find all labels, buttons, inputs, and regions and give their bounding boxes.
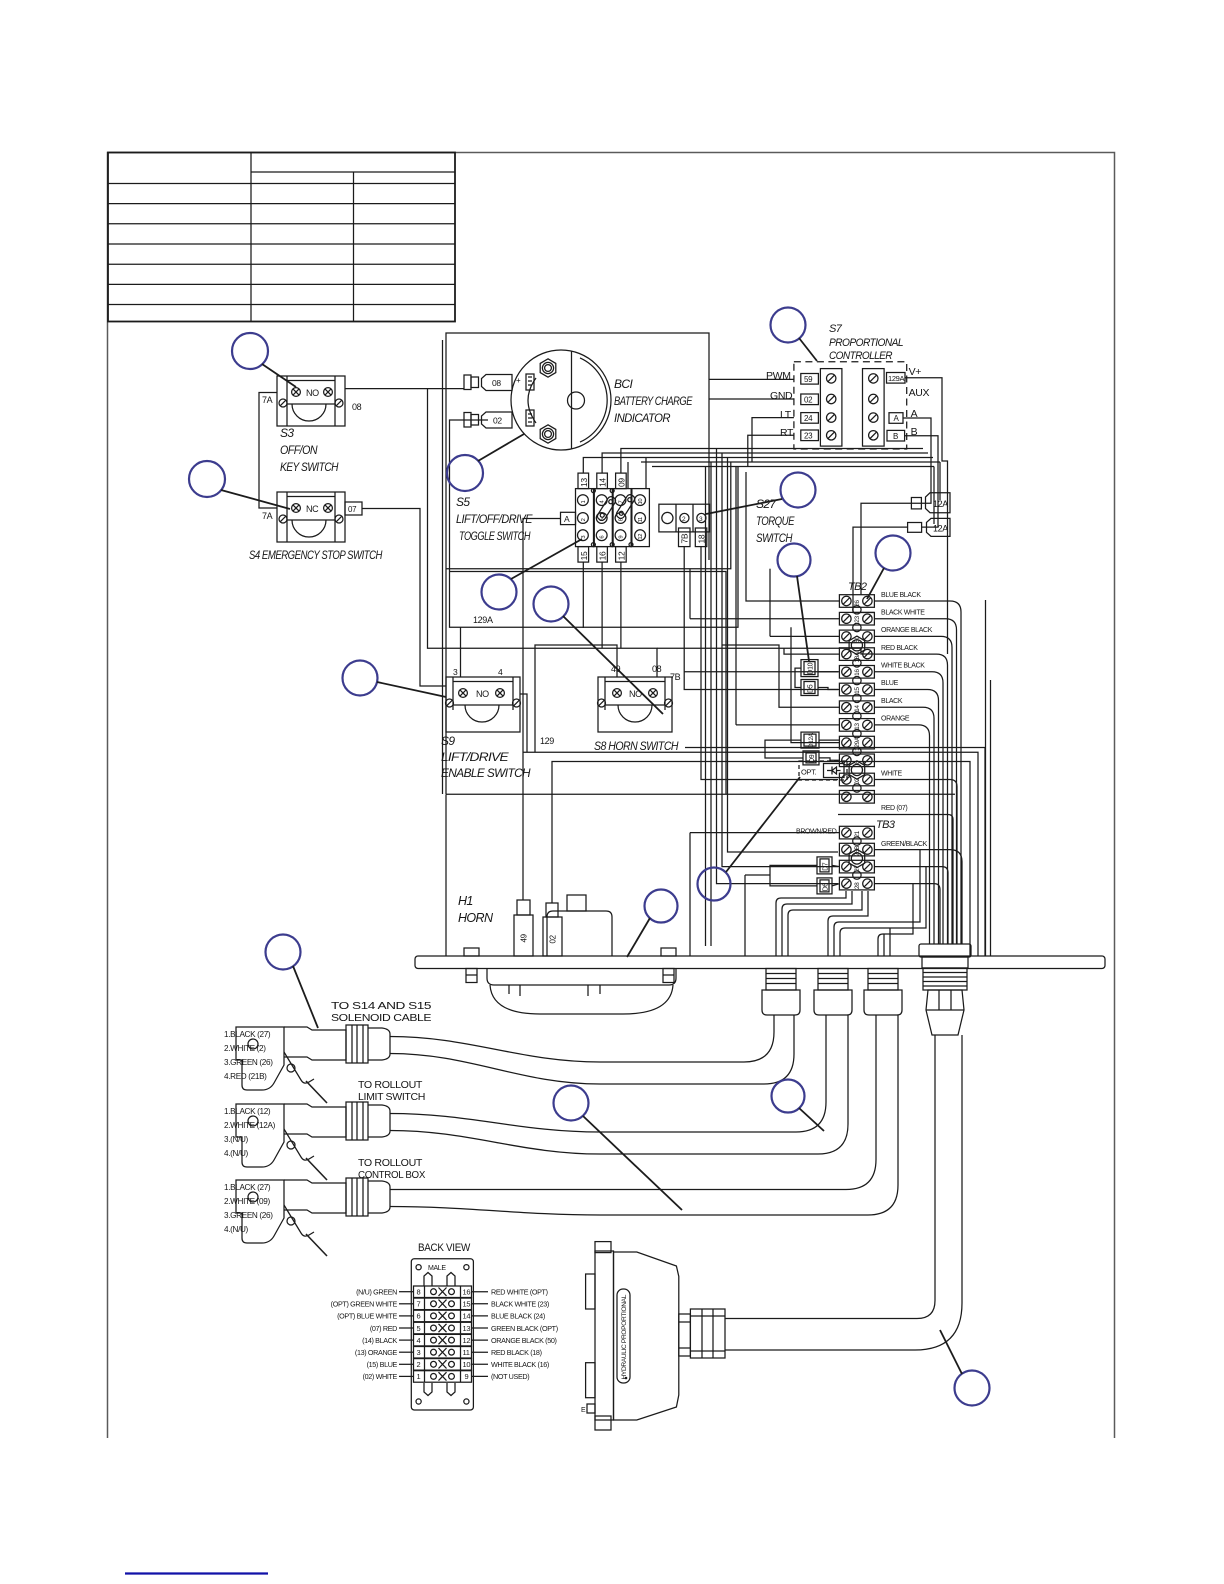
label 7A (S4) bbox=[262, 511, 273, 521]
left verticals to plate bbox=[446, 794, 745, 956]
svg-text:(07) RED: (07) RED bbox=[370, 1324, 397, 1333]
svg-text:BCI: BCI bbox=[614, 377, 633, 391]
TB2 hex nut upper bbox=[849, 636, 865, 654]
svg-text:15: 15 bbox=[854, 687, 861, 694]
svg-text:12: 12 bbox=[463, 1336, 471, 1345]
svg-text:4.(N/U): 4.(N/U) bbox=[224, 1225, 249, 1234]
svg-text:GREEN/BLACK: GREEN/BLACK bbox=[881, 841, 928, 848]
svg-text:TO ROLLOUT: TO ROLLOUT bbox=[358, 1158, 422, 1169]
svg-text:BACK VIEW: BACK VIEW bbox=[418, 1242, 471, 1254]
svg-text:AUX: AUX bbox=[909, 387, 930, 399]
wire D7 D6 links bbox=[745, 865, 839, 886]
svg-text:12: 12 bbox=[616, 551, 626, 560]
terminal strip TB2 bbox=[839, 595, 874, 803]
S5 tab 16 bbox=[597, 547, 608, 563]
svg-text:4: 4 bbox=[498, 667, 503, 677]
svg-text:4.(N/U): 4.(N/U) bbox=[224, 1149, 249, 1158]
svg-text:3.GREEN (26): 3.GREEN (26) bbox=[224, 1058, 273, 1067]
svg-text:(OPT) BLUE WHITE: (OPT) BLUE WHITE bbox=[337, 1312, 397, 1321]
svg-text:02: 02 bbox=[854, 777, 861, 784]
wire horn 02 bbox=[552, 762, 970, 904]
diode block D12A bbox=[801, 732, 819, 748]
svg-text:02: 02 bbox=[549, 934, 558, 943]
label BROWN/RED bbox=[796, 829, 837, 836]
TB3 row numbers bbox=[854, 830, 861, 889]
back view pin numbers right bbox=[463, 1288, 471, 1382]
wire S8 49 bbox=[535, 645, 617, 752]
toggle switch S5 grid bbox=[576, 489, 650, 547]
svg-text:LIMIT SWITCH: LIMIT SWITCH bbox=[358, 1092, 425, 1103]
switch S3 key switch bbox=[277, 376, 345, 426]
label S3 OFF/ON KEY SWITCH bbox=[280, 426, 339, 474]
svg-text:S3: S3 bbox=[280, 426, 294, 440]
svg-text:BLUE BLACK: BLUE BLACK bbox=[881, 592, 921, 599]
callout balloon gland1 bbox=[772, 1080, 825, 1132]
label 129 bbox=[540, 736, 554, 746]
wire lower box line 2 bbox=[450, 572, 727, 795]
diode block D10 bbox=[801, 660, 818, 677]
wire LT bbox=[752, 418, 794, 462]
callout balloon cable1 bbox=[266, 935, 319, 1029]
svg-text:15: 15 bbox=[579, 551, 589, 560]
cable gland 1 bbox=[762, 969, 800, 1016]
cable gland 3 bbox=[864, 969, 902, 1016]
wire A bbox=[903, 418, 931, 503]
label 7B bbox=[670, 672, 681, 682]
svg-text:12: 12 bbox=[638, 534, 644, 540]
wire 129 from S9 bbox=[520, 694, 985, 752]
svg-text:1.BLACK (27): 1.BLACK (27) bbox=[224, 1030, 271, 1039]
BCI battery charge indicator bbox=[511, 350, 611, 450]
svg-text:129A: 129A bbox=[888, 374, 904, 383]
svg-text:3.GREEN (26): 3.GREEN (26) bbox=[224, 1211, 273, 1220]
TB2 fan-out wires right bbox=[875, 601, 962, 944]
OPT diode assembly bbox=[799, 761, 847, 780]
torque switch S27 block bbox=[659, 504, 710, 532]
svg-text:11: 11 bbox=[463, 1348, 470, 1357]
cable gland big bbox=[919, 944, 971, 1035]
diode block D7 bbox=[817, 857, 832, 874]
svg-text:4.RED (21B): 4.RED (21B) bbox=[224, 1072, 267, 1081]
cable assembly 2 labels bbox=[224, 1107, 276, 1158]
svg-text:13: 13 bbox=[463, 1324, 471, 1333]
hydraulic cable bbox=[725, 1035, 962, 1350]
wire RT bbox=[748, 435, 794, 466]
svg-text:V+: V+ bbox=[909, 366, 922, 378]
svg-text:S4 EMERGENCY STOP SWITCH: S4 EMERGENCY STOP SWITCH bbox=[249, 548, 383, 562]
svg-text:D12A: D12A bbox=[808, 732, 815, 748]
svg-text:RED BLACK: RED BLACK bbox=[881, 645, 918, 652]
hydraulic gland bbox=[679, 1309, 725, 1358]
wire S5 tab15 down bbox=[582, 562, 584, 628]
svg-text:TO ROLLOUT: TO ROLLOUT bbox=[358, 1080, 422, 1091]
S7 right screws bbox=[869, 374, 878, 440]
svg-text:WHITE BLACK (16): WHITE BLACK (16) bbox=[491, 1360, 549, 1369]
svg-text:07: 07 bbox=[348, 505, 357, 514]
wire 129A stub to S9 bbox=[460, 627, 462, 677]
svg-text:50: 50 bbox=[854, 635, 861, 642]
S5 tab 14 bbox=[597, 473, 608, 489]
svg-text:BLUE: BLUE bbox=[881, 680, 899, 687]
svg-text:WHITE BLACK: WHITE BLACK bbox=[881, 663, 925, 670]
svg-text:D7: D7 bbox=[822, 862, 829, 871]
svg-text:08: 08 bbox=[352, 402, 362, 412]
wire net 08 branch down to S8 bbox=[428, 389, 658, 677]
fuse spade 12A no.1 bbox=[911, 493, 950, 513]
spade terminal 02 bbox=[464, 412, 512, 428]
svg-text:08: 08 bbox=[652, 664, 662, 674]
svg-text:KEY SWITCH: KEY SWITCH bbox=[280, 460, 339, 474]
callout balloon TB2 bbox=[867, 536, 911, 600]
label 08 bbox=[352, 402, 362, 412]
svg-text:2: 2 bbox=[581, 518, 587, 521]
horn H1 bbox=[487, 895, 676, 1014]
S7 pin 129A bbox=[887, 373, 906, 384]
svg-text:5: 5 bbox=[417, 1324, 421, 1333]
svg-text:7A: 7A bbox=[262, 511, 273, 521]
svg-text:02: 02 bbox=[804, 396, 813, 405]
svg-text:ENABLE SWITCH: ENABLE SWITCH bbox=[441, 766, 531, 780]
svg-text:PWM: PWM bbox=[766, 370, 791, 382]
cable 3 wires bbox=[390, 1015, 898, 1215]
svg-text:H1: H1 bbox=[458, 894, 473, 908]
label 7A (S3) bbox=[262, 395, 273, 405]
back view right labels bbox=[491, 1288, 558, 1382]
svg-text:NO: NO bbox=[476, 689, 489, 699]
wire S27 7B down bbox=[684, 547, 838, 690]
svg-text:ORANGE: ORANGE bbox=[881, 716, 910, 723]
svg-text:24: 24 bbox=[804, 414, 813, 423]
wire BROWN/RED bbox=[690, 832, 839, 834]
wire S5 A tab to horn bbox=[523, 519, 561, 901]
wire S5 tab12 down bbox=[620, 562, 622, 648]
callout balloon 1 (S3) bbox=[232, 333, 296, 387]
wire spade2 left bbox=[853, 527, 908, 612]
callout balloon S5 bbox=[482, 539, 583, 610]
svg-text:ORANGE BLACK (50): ORANGE BLACK (50) bbox=[491, 1336, 557, 1345]
svg-text:TO S14 AND S15: TO S14 AND S15 bbox=[331, 1001, 432, 1012]
callout balloon rollout bbox=[554, 1086, 683, 1211]
svg-text:OFF/ON: OFF/ON bbox=[280, 443, 318, 457]
svg-text:12A: 12A bbox=[933, 524, 948, 534]
svg-text:NO: NO bbox=[629, 689, 642, 699]
back view pin numbers left bbox=[417, 1288, 421, 1382]
TB2 wire color labels bbox=[881, 592, 933, 812]
wire 08 from S3 to spade bbox=[345, 388, 464, 390]
svg-text:ORANGE BLACK: ORANGE BLACK bbox=[881, 627, 933, 634]
svg-text:129: 129 bbox=[540, 736, 554, 746]
label S5 LIFT/OFF/DRIVE TOGGLE SWITCH bbox=[456, 495, 533, 543]
TB2 hex nut lower bbox=[849, 761, 865, 779]
terminal tab 07 bbox=[345, 502, 362, 515]
svg-text:9: 9 bbox=[465, 1372, 469, 1381]
svg-text:TORQUE: TORQUE bbox=[756, 514, 795, 528]
svg-text:E: E bbox=[581, 1407, 586, 1414]
label S4 EMERGENCY STOP SWITCH bbox=[249, 548, 383, 562]
svg-text:16: 16 bbox=[463, 1288, 471, 1297]
label S8 HORN SWITCH bbox=[594, 739, 679, 753]
wire GND bbox=[709, 398, 794, 400]
S7 pin A bbox=[889, 413, 903, 424]
svg-text:RT: RT bbox=[780, 427, 794, 439]
cable assembly 3 connector bbox=[236, 1178, 390, 1256]
svg-text:02: 02 bbox=[493, 416, 502, 426]
svg-text:1.BLACK (27): 1.BLACK (27) bbox=[224, 1183, 271, 1192]
svg-text:MALE: MALE bbox=[428, 1265, 446, 1272]
svg-text:WHITE: WHITE bbox=[881, 771, 902, 778]
svg-text:6: 6 bbox=[600, 536, 606, 539]
svg-text:23: 23 bbox=[804, 432, 813, 441]
S7 pin 23 bbox=[801, 430, 819, 441]
cable assembly 1 connector bbox=[236, 1025, 390, 1103]
svg-text:13: 13 bbox=[579, 478, 589, 487]
svg-text:26B: 26B bbox=[854, 846, 861, 857]
cable 1 wires bbox=[390, 1015, 794, 1084]
S5 tab 09 bbox=[616, 473, 627, 489]
label TO ROLLOUT LIMIT SWITCH bbox=[358, 1080, 425, 1103]
callout balloon S8 pointer bbox=[534, 587, 664, 715]
svg-text:7B: 7B bbox=[680, 533, 690, 543]
diode block D9 bbox=[803, 751, 819, 765]
blue reference line bottom bbox=[125, 1572, 268, 1574]
wire D blocks left link bbox=[765, 740, 839, 760]
wire net 08 continue to TB2 bbox=[657, 648, 874, 654]
callout balloon 3 (BCI) bbox=[447, 434, 524, 491]
revision table bbox=[108, 153, 455, 322]
svg-text:TB2: TB2 bbox=[848, 581, 867, 593]
svg-text:3: 3 bbox=[453, 667, 458, 677]
svg-text:28: 28 bbox=[854, 882, 861, 889]
svg-text:7A: 7A bbox=[262, 395, 273, 405]
cable assembly 3 labels bbox=[224, 1183, 273, 1234]
svg-text:D5: D5 bbox=[807, 684, 814, 693]
svg-text:GREEN BLACK (OPT): GREEN BLACK (OPT) bbox=[491, 1324, 558, 1333]
svg-text:NO: NO bbox=[306, 388, 319, 398]
S5 tab 15 bbox=[578, 547, 589, 563]
S7 net labels right bbox=[909, 366, 930, 438]
S7 pin 59 bbox=[801, 374, 819, 385]
back view pin circles bbox=[431, 1289, 455, 1380]
switch S8 horn switch bbox=[598, 677, 673, 732]
wire 07 from S4 to S9 bbox=[362, 509, 446, 687]
label TO ROLLOUT CONTROL BOX bbox=[358, 1158, 426, 1181]
label S7 PROPORTIONAL CONTROLLER bbox=[829, 323, 903, 362]
wire bottom box line bbox=[446, 793, 779, 795]
wire S27 18 down bbox=[701, 547, 838, 780]
S5 tab 12 bbox=[616, 547, 627, 563]
wire S5 tab13 up bbox=[583, 458, 933, 474]
wire 49 horizontal bbox=[523, 752, 978, 765]
wire white row bbox=[875, 780, 958, 945]
svg-text:TOGGLE SWITCH: TOGGLE SWITCH bbox=[459, 529, 531, 543]
svg-text:S9: S9 bbox=[441, 734, 455, 748]
cable gland 2 bbox=[814, 969, 852, 1016]
label BACK VIEW bbox=[418, 1242, 471, 1254]
svg-text:NC: NC bbox=[306, 504, 319, 514]
svg-text:9: 9 bbox=[619, 536, 625, 539]
label S9 LIFT/DRIVE ENABLE SWITCH bbox=[441, 734, 531, 780]
callout balloon S27 bbox=[706, 473, 816, 515]
svg-text:11: 11 bbox=[638, 517, 644, 522]
callout balloon 2 (S4) bbox=[189, 461, 290, 509]
label 129A bbox=[473, 615, 493, 625]
callout balloon D10 bbox=[778, 544, 811, 662]
svg-text:LT: LT bbox=[780, 409, 792, 421]
svg-text:59: 59 bbox=[804, 375, 813, 384]
wire staircase to glands bbox=[776, 850, 926, 956]
TB2 left stubs bbox=[690, 467, 839, 743]
svg-text:129A: 129A bbox=[854, 736, 861, 751]
svg-text:(OPT) GREEN WHITE: (OPT) GREEN WHITE bbox=[331, 1300, 398, 1309]
svg-text:RED WHITE (OPT): RED WHITE (OPT) bbox=[491, 1288, 548, 1297]
cable assembly 1 labels bbox=[224, 1030, 273, 1081]
svg-text:(13) ORANGE: (13) ORANGE bbox=[355, 1348, 398, 1357]
S7 net labels left bbox=[766, 370, 794, 439]
svg-text:SOLENOID CABLE: SOLENOID CABLE bbox=[331, 1013, 432, 1024]
S5 tab A bbox=[561, 512, 576, 524]
svg-text:08: 08 bbox=[492, 378, 501, 388]
horn spade 02 bbox=[543, 903, 562, 956]
callout balloon OPT bbox=[698, 777, 801, 901]
wire B bbox=[905, 436, 938, 527]
svg-text:BLACK WHITE (23): BLACK WHITE (23) bbox=[491, 1300, 549, 1309]
svg-text:HYDRAULIC PROPORTIONAL: HYDRAULIC PROPORTIONAL bbox=[621, 1294, 628, 1379]
horn bolts bbox=[464, 948, 676, 983]
svg-text:12A: 12A bbox=[933, 499, 948, 509]
svg-text:1.BLACK (12): 1.BLACK (12) bbox=[224, 1107, 271, 1116]
svg-text:A: A bbox=[564, 514, 570, 524]
S5 tab 13 bbox=[578, 473, 589, 489]
hydraulic proportional connector bbox=[581, 1242, 679, 1430]
svg-text:OPT.: OPT. bbox=[801, 768, 817, 777]
svg-text:TB3: TB3 bbox=[876, 819, 896, 831]
wire D5 to TB2 bbox=[795, 668, 839, 689]
wire 02/129A from spade down to S9 bbox=[450, 420, 739, 627]
svg-text:+: + bbox=[516, 376, 521, 385]
S5 jumper strap 1 bbox=[596, 495, 617, 521]
svg-text:(02) WHITE: (02) WHITE bbox=[363, 1372, 398, 1381]
svg-text:49: 49 bbox=[611, 664, 621, 674]
TB2 row numbers bbox=[854, 600, 861, 785]
svg-text:49: 49 bbox=[520, 933, 529, 942]
wire spade1 left bbox=[861, 503, 911, 595]
wire lower box line bbox=[446, 462, 731, 569]
svg-text:S7: S7 bbox=[829, 323, 843, 335]
back view connector body bbox=[411, 1259, 473, 1410]
svg-text:7: 7 bbox=[417, 1300, 421, 1309]
back view right leaders bbox=[472, 1292, 489, 1377]
svg-text:LIFT/DRIVE: LIFT/DRIVE bbox=[441, 750, 510, 764]
svg-text:RED BLACK (18): RED BLACK (18) bbox=[491, 1348, 542, 1357]
back view pin separators bbox=[439, 1288, 447, 1381]
wire GREEN/BLACK fan bbox=[875, 850, 963, 944]
svg-text:18A: 18A bbox=[854, 651, 861, 663]
svg-text:(15) BLUE: (15) BLUE bbox=[367, 1360, 398, 1369]
wire V+ bbox=[905, 378, 948, 654]
switch S9 lift/drive enable bbox=[446, 667, 521, 732]
S7 pin 02 bbox=[801, 394, 819, 405]
svg-text:PROPORTIONAL: PROPORTIONAL bbox=[829, 337, 903, 349]
svg-text:3: 3 bbox=[417, 1348, 421, 1357]
svg-text:2: 2 bbox=[417, 1360, 421, 1369]
label TB3 bbox=[876, 819, 896, 831]
wire right drops bbox=[970, 748, 985, 957]
label TO S14 AND S15 SOLENOID CABLE bbox=[331, 1001, 432, 1024]
S7 pin 24 bbox=[801, 413, 819, 424]
fuse spade 12A no.2 bbox=[908, 518, 950, 536]
TB3 hex nut bbox=[849, 849, 865, 867]
svg-text:D6: D6 bbox=[822, 883, 829, 892]
svg-text:BATTERY CHARGE: BATTERY CHARGE bbox=[614, 394, 693, 408]
border frame bbox=[108, 153, 1115, 1439]
svg-text:8: 8 bbox=[417, 1288, 421, 1297]
callout balloon S7 bbox=[771, 308, 818, 362]
wire bundle horizontals mid bbox=[628, 449, 940, 947]
diode block D5 bbox=[801, 680, 818, 696]
S7 left screws bbox=[827, 374, 836, 440]
switch S4 emergency stop bbox=[277, 492, 345, 542]
mounting plate bbox=[415, 956, 1105, 969]
back view pin rows bbox=[414, 1286, 472, 1382]
svg-text:BLACK WHITE: BLACK WHITE bbox=[881, 610, 925, 617]
svg-text:S5: S5 bbox=[456, 495, 470, 509]
svg-text:CONTROLLER: CONTROLLER bbox=[829, 350, 893, 362]
BCI enclosure box bbox=[443, 333, 710, 794]
svg-text:129A: 129A bbox=[473, 615, 493, 625]
enclosure right edge bbox=[986, 600, 991, 956]
svg-text:2.WHITE (2): 2.WHITE (2) bbox=[224, 1044, 266, 1053]
label TB2 bbox=[848, 581, 867, 593]
label BCI BATTERY CHARGE INDICATOR bbox=[614, 377, 693, 425]
svg-text:27: 27 bbox=[854, 865, 861, 872]
svg-text:1: 1 bbox=[581, 501, 587, 504]
svg-text:SWITCH: SWITCH bbox=[756, 531, 793, 545]
svg-text:16: 16 bbox=[598, 551, 608, 560]
svg-text:2.WHITE (09): 2.WHITE (09) bbox=[224, 1197, 270, 1206]
horn spade 49 bbox=[514, 900, 533, 956]
svg-text:14: 14 bbox=[854, 705, 861, 712]
callout balloon horn-plate bbox=[627, 890, 678, 958]
svg-text:(14) BLACK: (14) BLACK bbox=[362, 1336, 397, 1345]
svg-text:S8 HORN SWITCH: S8 HORN SWITCH bbox=[594, 739, 679, 753]
svg-text:21: 21 bbox=[854, 830, 861, 837]
svg-text:(NOT USED): (NOT USED) bbox=[491, 1372, 529, 1381]
svg-text:10: 10 bbox=[463, 1360, 471, 1369]
wire S5 tab14 up bbox=[602, 453, 928, 473]
svg-text:BLACK: BLACK bbox=[881, 698, 903, 705]
svg-text:B: B bbox=[893, 432, 898, 441]
wire S5 tab09 up bbox=[621, 449, 923, 474]
proportional controller S7 bbox=[794, 362, 907, 449]
svg-text:26: 26 bbox=[854, 600, 861, 607]
svg-text:4: 4 bbox=[417, 1336, 421, 1345]
svg-text:14: 14 bbox=[463, 1312, 471, 1321]
S5 jumper strap 2 bbox=[615, 493, 636, 519]
cable 2 wires bbox=[390, 1015, 848, 1154]
callout balloon S9 bbox=[343, 661, 447, 698]
wire red 07 bbox=[779, 794, 955, 944]
svg-text:BLUE BLACK (24): BLUE BLACK (24) bbox=[491, 1312, 545, 1321]
svg-text:D10: D10 bbox=[807, 662, 814, 674]
diode block D6 bbox=[817, 878, 832, 894]
svg-text:16: 16 bbox=[854, 669, 861, 676]
svg-text:13: 13 bbox=[854, 723, 861, 730]
svg-text:14: 14 bbox=[598, 478, 608, 487]
svg-text:15: 15 bbox=[463, 1300, 471, 1309]
svg-text:LIFT/OFF/DRIVE: LIFT/OFF/DRIVE bbox=[456, 512, 533, 526]
svg-text:HORN: HORN bbox=[458, 911, 494, 925]
callout balloon hydraulic bbox=[940, 1330, 990, 1406]
